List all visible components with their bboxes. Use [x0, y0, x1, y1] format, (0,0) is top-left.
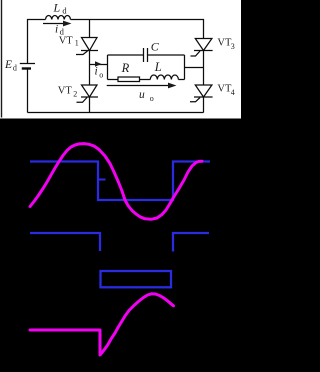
svg-text:o: o [150, 94, 154, 103]
svg-text:L: L [53, 0, 61, 14]
svg-text:R: R [121, 61, 130, 75]
svg-text:d: d [62, 5, 67, 15]
wire load bottom branch left [108, 79, 119, 81]
arrow uo line [107, 85, 170, 87]
svg-text:VT: VT [217, 38, 232, 49]
arrow id line [43, 23, 65, 25]
wire top left (Ed to Ld) [28, 20, 46, 64]
wire middle branch bottom (VT2 to bottom) [89, 97, 91, 113]
inductor Ld [46, 16, 71, 20]
svg-text:VT: VT [58, 85, 73, 96]
circuit background panel [0, 0, 241, 119]
wire top right (Ld to VT3 branch) [71, 20, 204, 39]
waveform 1 square wave uo (blue) [30, 162, 210, 201]
waveform 1 zero-axis tick [99, 179, 106, 181]
wire uo tap [185, 67, 204, 69]
inductor L [150, 75, 178, 80]
svg-text:VT: VT [217, 84, 232, 95]
wire right branch bottom (VT4 to bottom) [203, 97, 205, 113]
svg-text:u: u [139, 89, 145, 101]
svg-text:3: 3 [231, 42, 235, 51]
capacitor C [144, 48, 148, 62]
battery Ed plate short [22, 67, 31, 69]
waveform 2 gate pulse left (blue) [30, 233, 100, 251]
wire io tap [90, 64, 108, 66]
svg-text:2: 2 [73, 90, 77, 99]
waveform 3 gate pulse rectangle (blue) [101, 271, 172, 287]
svg-text:1: 1 [75, 39, 79, 48]
thyristor VT1 [76, 38, 98, 55]
wire load right edge [184, 55, 186, 80]
svg-text:E: E [4, 59, 12, 71]
wire right branch mid (VT3 to VT4) [203, 51, 205, 86]
waveform 4 thyristor voltage (magenta) [30, 294, 174, 355]
arrow id head [63, 21, 72, 27]
thyristor VT4 [190, 85, 213, 102]
waveform 1 sine io (magenta) [30, 144, 202, 220]
arrow io head [95, 61, 102, 67]
battery Ed plate long [20, 63, 35, 65]
waveform 2 gate pulse right (blue) [173, 233, 209, 252]
wire L to right edge [178, 79, 184, 81]
figure left border bar [1, 0, 2, 118]
wire left lower (battery to bottom) [27, 69, 29, 112]
wire load left edge [107, 55, 109, 80]
resistor R [118, 77, 140, 82]
svg-text:VT: VT [59, 35, 74, 46]
wire R to L [140, 79, 151, 81]
wire load top branch right [148, 54, 185, 56]
svg-text:L: L [154, 60, 162, 74]
svg-text:o: o [99, 71, 103, 80]
svg-text:d: d [13, 64, 17, 73]
wire middle branch top (to VT1) [89, 20, 91, 38]
wire bottom [28, 112, 204, 114]
svg-text:4: 4 [231, 88, 235, 97]
wire load top branch left [108, 54, 144, 56]
svg-text:i: i [95, 66, 98, 78]
svg-text:C: C [151, 40, 160, 54]
svg-text:i: i [55, 24, 58, 36]
arrow uo head [168, 83, 177, 89]
wire middle branch mid (VT1 to VT2) [89, 51, 91, 86]
thyristor VT3 [191, 39, 213, 57]
thyristor VT2 [77, 85, 99, 102]
